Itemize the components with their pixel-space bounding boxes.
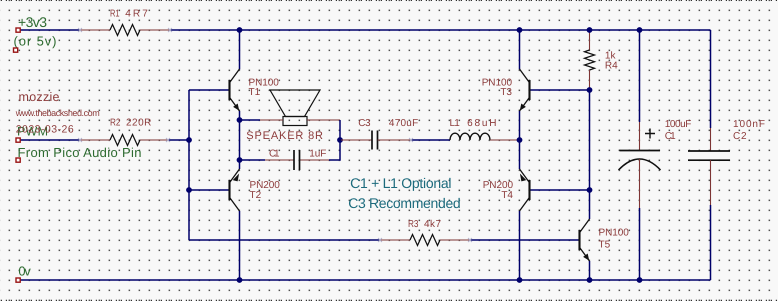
svg-text:(or 5v): (or 5v) — [14, 34, 57, 49]
wire T2 collector to 0v — [239, 211, 241, 280]
svg-text:T1: T1 — [249, 87, 261, 98]
wire T1 base stub — [189, 89, 229, 91]
node 0v terminal square — [16, 278, 20, 282]
wire output node B vertical — [519, 111, 521, 169]
node (or 5v) terminal square — [14, 48, 18, 52]
transistor Q T3 PN100 — [520, 69, 530, 111]
wire +3v3 rail right segment — [170, 29, 711, 31]
junction R4/T3 base — [587, 87, 593, 93]
wire +3v3 rail left segment — [18, 29, 80, 31]
wire T3 collector to rail — [519, 30, 521, 70]
junction rail/C1 — [637, 27, 643, 33]
resistor R2 — [78, 135, 170, 146]
resistor R3 — [189, 235, 579, 246]
wire T3 base stub — [531, 89, 590, 91]
svg-text:T5: T5 — [599, 239, 611, 250]
svg-text:L1: L1 — [450, 118, 461, 129]
junction 0v/T2 — [237, 277, 243, 283]
svg-text:1uF: 1uF — [309, 148, 326, 159]
svg-text:220R: 220R — [126, 118, 151, 129]
junction node A / C1 — [237, 157, 243, 163]
wire R4 rail vertical — [589, 90, 591, 219]
svg-text:C3 Recommended: C3 Recommended — [348, 195, 461, 211]
svg-text:PN100: PN100 — [599, 228, 630, 239]
polarity + mark C1 — [645, 129, 655, 139]
junction rail/T1 — [237, 27, 243, 33]
svg-text:470uF: 470uF — [389, 118, 418, 129]
svg-text:100nF: 100nF — [733, 119, 765, 130]
junction 0v/C1 — [637, 277, 643, 283]
svg-text:C1 + L1 Optional: C1 + L1 Optional — [350, 175, 451, 191]
junction input/T2 base — [186, 187, 192, 193]
svg-text:4R7: 4R7 — [125, 8, 148, 19]
svg-text:www.thebackshed.com: www.thebackshed.com — [15, 108, 100, 118]
transistor Q T5 PN100 — [580, 219, 590, 261]
node +3v3 terminal square — [16, 28, 20, 32]
speaker SPEAKER 8R — [270, 90, 320, 126]
svg-text:4k7: 4k7 — [424, 219, 441, 230]
capacitor C2 100nF — [688, 30, 730, 280]
svg-text:R2: R2 — [110, 118, 121, 129]
junction input/R2 — [186, 137, 192, 143]
wire T5 emitter to 0v — [589, 261, 591, 280]
wire from input terminal to R2 — [20, 139, 80, 141]
capacitor C3 470uF — [341, 131, 450, 150]
svg-text:mozzie: mozzie — [19, 90, 60, 104]
resistor R4 — [585, 30, 595, 90]
wire base bus vertical — [188, 90, 190, 240]
inductor L1 68uH — [450, 133, 520, 140]
junction T4 base/R4 rail — [587, 187, 593, 193]
svg-text:R4: R4 — [605, 61, 618, 72]
svg-text:SPEAKER 8R: SPEAKER 8R — [246, 130, 323, 142]
svg-text:C1: C1 — [665, 131, 676, 142]
node input terminal square — [16, 138, 20, 142]
junction node A / speaker — [237, 117, 243, 123]
svg-text:R1: R1 — [110, 8, 120, 19]
svg-text:C2: C2 — [733, 131, 747, 142]
svg-text:From Pico Audio Pin: From Pico Audio Pin — [18, 145, 142, 160]
transistor Q T4 PN200 — [520, 169, 530, 211]
transistor Q T2 PN200 — [230, 169, 240, 211]
svg-text:T2: T2 — [250, 190, 262, 201]
junction 0v/T5 — [587, 277, 593, 283]
capacitor C1 100uF electrolytic — [619, 30, 661, 280]
wire T4 base stub — [531, 189, 590, 191]
capacitor C1 1uF — [294, 150, 300, 170]
wire 0v bottom rail — [18, 279, 711, 281]
junction node B / L1 — [517, 137, 523, 143]
wire T1 collector to rail — [239, 30, 241, 70]
wire R2 to node junction — [168, 139, 189, 141]
svg-text:100uF: 100uF — [665, 119, 692, 130]
svg-text:68uH: 68uH — [467, 118, 496, 129]
wire T4 collector to 0v — [519, 211, 521, 280]
junction 0v/T4 — [517, 277, 523, 283]
wire speaker left — [240, 119, 284, 121]
junction rail/T3 — [517, 27, 523, 33]
resistor R1 — [78, 25, 172, 36]
wire speaker right — [307, 120, 340, 140]
svg-text:C1: C1 — [269, 148, 280, 159]
svg-text:2023-03-26: 2023-03-26 — [16, 124, 74, 136]
wire C1 1uF branch — [240, 140, 341, 160]
svg-text:0v: 0v — [18, 263, 31, 278]
svg-text:R3: R3 — [408, 219, 419, 230]
wire output node A vertical — [239, 111, 241, 169]
svg-text:T3: T3 — [500, 87, 512, 98]
wire T2 base stub — [189, 189, 229, 191]
transistor Q T1 PN100 — [230, 69, 240, 111]
svg-text:T4: T4 — [501, 190, 513, 201]
junction rail/R4 — [587, 27, 593, 33]
svg-text:+3v3: +3v3 — [18, 14, 47, 30]
junction C3 node — [337, 137, 343, 143]
node From-Pico terminal square — [16, 158, 20, 162]
svg-text:C3: C3 — [358, 118, 371, 129]
